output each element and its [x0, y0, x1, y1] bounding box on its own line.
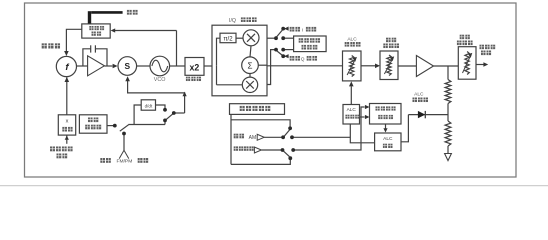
- arrow into ALC hold: [383, 128, 387, 132]
- wire ext AM to switch: [264, 136, 283, 138]
- mixer Q circle: [242, 77, 257, 92]
- function generator 2 box: [230, 104, 285, 115]
- svg-text:Q: Q: [301, 56, 305, 62]
- wire external FM/PM riser: [123, 134, 125, 151]
- pi/2 phase shifter box: [220, 33, 236, 43]
- ALC driver box: [343, 105, 360, 125]
- output attenuator box: [458, 47, 476, 79]
- svg-text:x2: x2: [190, 62, 200, 72]
- wire ext pulse to switch: [261, 149, 282, 151]
- wire ALC hold to detector: [401, 115, 408, 142]
- VCO label: [154, 77, 166, 83]
- wire d/dt output: [156, 105, 166, 109]
- signal output label: [479, 45, 495, 56]
- wire VCO tap to fractional divider: [115, 31, 177, 67]
- pulse source switch: [281, 148, 296, 160]
- fractional-N divider box: [82, 24, 110, 38]
- detector resistor R1: [445, 80, 451, 104]
- wire reference input to divide-by-x: [66, 135, 68, 144]
- IQ modulator label: [229, 17, 257, 24]
- I input switch: [274, 27, 285, 40]
- pulse modulation driver box: [370, 104, 402, 125]
- wire FM path riser to summing node: [128, 81, 185, 113]
- control label: [127, 10, 138, 15]
- x2 label: [186, 77, 201, 82]
- d/dt box: [141, 100, 155, 110]
- arrow into ALC modulator from driver: [349, 81, 354, 86]
- wire function generator 1 to switch: [107, 125, 114, 127]
- ext FM/PM label: [100, 158, 148, 165]
- ext AM label: [234, 134, 257, 142]
- arrow on FM riser: [183, 92, 187, 97]
- signal output arrow: [483, 62, 488, 67]
- arrow into pulse driver lower: [365, 115, 370, 119]
- mixer I circle: [243, 30, 259, 46]
- wire x2 to IQ modulator: [203, 65, 212, 67]
- ext FM/PM open arrow: [119, 150, 129, 158]
- wire divide-by-x to phase detector: [66, 77, 68, 115]
- wire Q ext contact: [283, 55, 288, 57]
- summing sigma circle: [242, 57, 259, 74]
- arrow into fractional divider: [111, 28, 116, 32]
- pulse modulator label: [383, 38, 399, 49]
- arrow into phase detector from bottom: [65, 77, 70, 82]
- ext AM open arrow: [257, 134, 264, 140]
- pulse modulator attenuator symbol: [384, 55, 394, 76]
- wire FM switch pole: [174, 112, 184, 114]
- wire IQ output to ALC modulator: [267, 65, 343, 67]
- ext Q input arrow: [284, 54, 288, 58]
- wire diode line: [408, 114, 448, 116]
- AM source switch: [281, 126, 294, 139]
- svg-text:I: I: [302, 27, 303, 33]
- svg-text:Σ: Σ: [248, 61, 253, 70]
- wire resistor to ground: [447, 146, 449, 154]
- output amplifier triangle: [416, 56, 433, 77]
- wire direct FM contact riser: [164, 121, 166, 124]
- wire fn-gen2 bottom loop: [231, 160, 290, 165]
- page divider line: [0, 185, 548, 187]
- from reference label: [50, 146, 73, 158]
- wire VCO to x2 multiplier: [170, 65, 185, 67]
- wire pulse mod to amplifier: [398, 65, 416, 67]
- wire detector chain top: [447, 66, 449, 80]
- ext Q input label: [290, 56, 317, 63]
- FM/PM mode switch: [163, 108, 176, 122]
- ALC modulator attenuator symbol: [347, 56, 357, 77]
- ext pulse open arrow: [254, 147, 261, 153]
- IQ internal wiring: [217, 38, 268, 85]
- svg-text:FM/PM: FM/PM: [117, 159, 133, 165]
- wire phase detector to amplifier: [76, 65, 88, 67]
- svg-text:π/2: π/2: [223, 36, 233, 42]
- ALC hold box: [375, 133, 401, 151]
- wire FM/PM common rail: [128, 124, 165, 126]
- svg-text:d/dt: d/dt: [145, 103, 153, 108]
- svg-text:I/Q: I/Q: [229, 18, 236, 24]
- wire pulse driver to ALC hold: [385, 124, 387, 129]
- ALC modulator box: [343, 51, 362, 81]
- wire between resistors: [447, 104, 449, 122]
- wire ALC driver riser and ALC hold link: [350, 124, 374, 143]
- wire fn-gen2 AM branch: [231, 120, 290, 127]
- output attenuator symbol: [463, 52, 473, 75]
- wire attenuator output: [476, 64, 484, 66]
- ext I input arrow: [284, 27, 288, 31]
- IQ modulator outline box: [212, 25, 267, 96]
- x2 multiplier box: [185, 58, 204, 76]
- wire summing node to VCO: [137, 65, 150, 67]
- VCO circle: [150, 56, 170, 76]
- svg-text:VCO: VCO: [154, 77, 166, 83]
- control input thick line: [88, 11, 123, 24]
- wire amplifier to summing node: [104, 65, 112, 67]
- arrow into summing node from below: [125, 76, 130, 81]
- wire d/dt input tap: [134, 105, 141, 125]
- wire pulse feed riser: [293, 107, 364, 150]
- wire I path to switch: [267, 37, 275, 39]
- ext pulse label: [234, 146, 254, 151]
- svg-text:AM: AM: [249, 135, 257, 141]
- arrow into divide-by-x box: [65, 136, 69, 140]
- wire amplifier to attenuator: [433, 65, 458, 67]
- ALC modulator label: [345, 37, 361, 47]
- detector resistor R2: [445, 121, 451, 146]
- ALC detector label: [412, 92, 428, 103]
- wire Q bb contact: [283, 49, 293, 51]
- svg-text:ALC: ALC: [414, 92, 424, 98]
- arrow into phase detector from top: [64, 51, 69, 56]
- ext I input label: [290, 27, 317, 34]
- integrator capacitor loop: [83, 45, 107, 66]
- ALC detector diode: [418, 111, 425, 118]
- arrow into pulse modulator: [375, 64, 380, 69]
- outer frame: [25, 3, 517, 177]
- wire fractional divider to phase detector top: [66, 29, 81, 52]
- wire ALC driver to pulse driver: [360, 116, 365, 118]
- svg-text:ALC: ALC: [347, 107, 357, 112]
- output attenuator label: [457, 35, 473, 46]
- arrow into summing node from amp: [113, 64, 118, 69]
- arrow into pulse driver upper: [365, 105, 370, 109]
- summing node circle: [118, 57, 137, 76]
- divide-by-x box: [58, 115, 75, 135]
- phase detector circle: [56, 56, 76, 76]
- wire ALC driver up to ALC modulator: [350, 86, 352, 104]
- baseband generator box: [294, 36, 327, 52]
- wire ALC mod to pulse mod: [361, 65, 376, 67]
- wire Q path riser: [267, 50, 275, 85]
- phase detector label: [42, 43, 61, 48]
- Q input switch: [274, 48, 285, 58]
- pulse modulator box: [380, 51, 398, 80]
- svg-text:S: S: [125, 61, 131, 71]
- wire fn-gen2 left drop: [230, 114, 232, 164]
- svg-text:x: x: [66, 118, 69, 124]
- wire I bb contact: [283, 37, 293, 39]
- ground symbol: [445, 154, 452, 161]
- function generator 1 box: [79, 115, 107, 133]
- FM source switch: [113, 124, 129, 136]
- wire I ext contact: [283, 28, 288, 30]
- wire AM feed to ALC driver riser: [292, 136, 350, 138]
- svg-text:ALC: ALC: [383, 136, 393, 142]
- loop amplifier triangle: [88, 56, 105, 76]
- svg-text:ALC: ALC: [347, 37, 357, 43]
